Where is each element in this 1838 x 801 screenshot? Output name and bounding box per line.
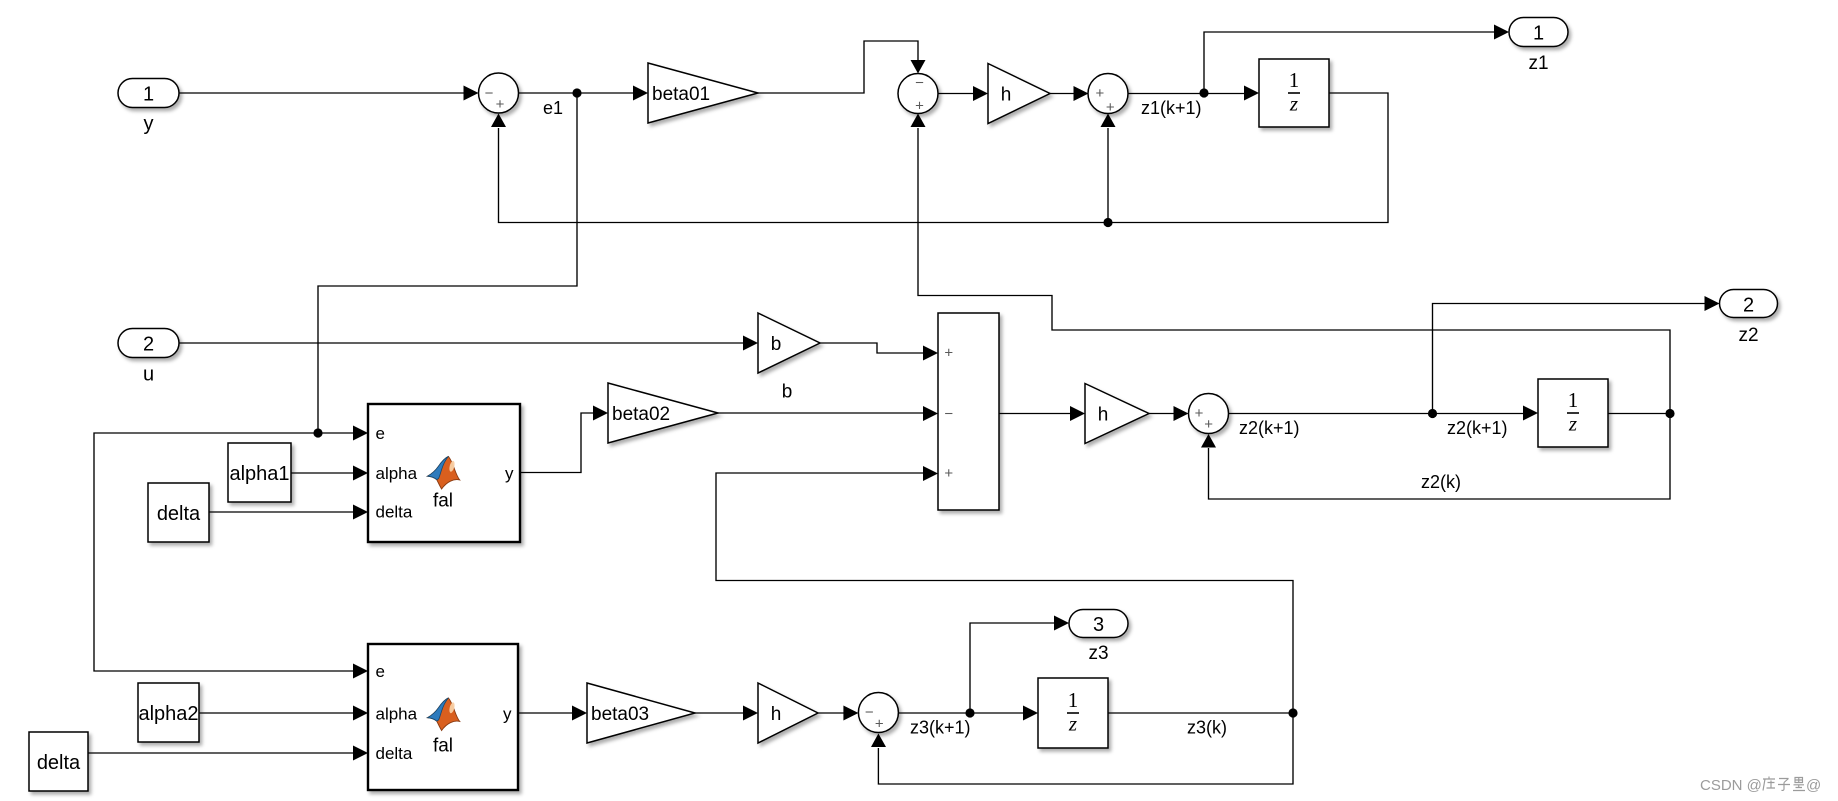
svg-text:delta: delta (37, 752, 81, 774)
svg-text:h: h (1001, 84, 1012, 105)
svg-text:z1: z1 (1528, 53, 1548, 74)
svg-text:z: z (1289, 91, 1298, 115)
svg-text:fal: fal (433, 736, 453, 757)
node z1(k) junction (1103, 218, 1112, 227)
svg-text:+: + (496, 96, 505, 113)
MATLAB function block fal1 (368, 404, 520, 542)
wire z2(k) feedback to Sum2 bottom (911, 114, 1671, 414)
wire z1(k) to Sum3 bottom (1101, 114, 1116, 223)
svg-text:z1(k+1): z1(k+1) (1141, 98, 1202, 118)
wire z3(k): UnitDelay3 output (1108, 712, 1293, 714)
wire h1 to Sum3 (1050, 86, 1089, 101)
sum S5 (z3 integrate) (858, 693, 898, 733)
svg-text:z: z (1568, 411, 1577, 435)
wire fal2 y to beta03 (518, 706, 587, 721)
wire z2(k+1): Sum4 to UnitDelay2 (1229, 406, 1539, 421)
constant block delta (148, 483, 209, 542)
svg-text:+: + (1195, 405, 1204, 422)
svg-text:+: + (1204, 416, 1213, 433)
svg-text:z2(k+1): z2(k+1) (1447, 418, 1508, 438)
constant block delta2 (29, 732, 88, 791)
svg-text:delta: delta (376, 744, 413, 763)
wire gain b to BigSum (820, 343, 938, 361)
unit delay U3 1/z (1038, 678, 1108, 748)
node z1(k+1) junction (1199, 88, 1208, 97)
svg-text:@: @ (1806, 777, 1821, 794)
svg-text:y: y (144, 113, 154, 135)
svg-text:+: + (944, 345, 953, 362)
inport 2 (u) (118, 329, 179, 386)
svg-text:u: u (143, 364, 154, 386)
svg-text:delta: delta (157, 503, 201, 525)
svg-text:+: + (944, 465, 953, 482)
svg-text:+: + (915, 97, 924, 114)
wire z3(k+1) to Outport3 (970, 616, 1069, 714)
node z2(k+1) junction (1428, 409, 1437, 418)
svg-text:z: z (1068, 711, 1077, 735)
node e1 junction (572, 88, 581, 97)
wire h2 to Sum4 (1149, 406, 1189, 421)
svg-text:1: 1 (1068, 688, 1079, 712)
unit delay U1 1/z (1259, 59, 1329, 127)
gain beta02 (608, 383, 718, 443)
svg-text:+: + (875, 716, 884, 733)
svg-text:3: 3 (1093, 614, 1104, 636)
wire z3(k) to Sum5 bottom (871, 713, 1293, 784)
wire alpha1 to fal1 (291, 466, 368, 481)
svg-text:z2(k): z2(k) (1421, 472, 1461, 492)
svg-text:1: 1 (1289, 68, 1300, 92)
svg-text:e1: e1 (543, 98, 563, 118)
svg-text:z2(k+1): z2(k+1) (1239, 418, 1300, 438)
svg-text:h: h (1098, 404, 1109, 425)
wire z1(k) feedback: UnitDelay1 to Sum1 bottom (491, 93, 1388, 223)
node z3(k+1) junction (965, 708, 974, 717)
sum S2 (beta01e1,z2) (898, 74, 938, 115)
svg-text:1: 1 (1568, 388, 1579, 412)
wire BigSum to h2 (999, 406, 1085, 421)
inport 1 (y) (118, 79, 179, 136)
wire z3(k) up to BigSum plus (716, 466, 1293, 713)
wire e into fal1 (318, 426, 368, 441)
wire e1 down to fal row (318, 93, 577, 433)
svg-text:h: h (771, 704, 782, 725)
wire h3 to Sum5 (818, 706, 858, 721)
svg-text:1: 1 (143, 83, 154, 105)
wire u to gain b (179, 336, 758, 351)
svg-text:+: + (1106, 99, 1115, 116)
node z3(k) junction (1288, 708, 1297, 717)
svg-text:y: y (505, 464, 514, 483)
constant block alpha2 (138, 683, 199, 742)
wire z3(k+1): Sum5 to UnitDelay3 (898, 706, 1038, 721)
unit delay U2 1/z (1538, 379, 1608, 447)
gain h2 (1085, 384, 1149, 444)
svg-text:b: b (771, 334, 782, 355)
svg-text:2: 2 (143, 333, 154, 355)
svg-text:z3(k): z3(k) (1187, 718, 1227, 738)
outport 1 (z1) (1509, 18, 1568, 75)
constant block alpha1 (228, 443, 291, 502)
gain beta01 (648, 63, 758, 123)
svg-text:z3(k+1): z3(k+1) (910, 718, 971, 738)
wire e to fal2 (94, 433, 368, 679)
wire beta01 to Sum2 top (758, 41, 926, 93)
svg-text:−: − (944, 405, 953, 422)
svg-text:CSDN @: CSDN @ (1700, 777, 1762, 794)
gain h3 (758, 683, 818, 743)
MATLAB function block fal2 (368, 644, 518, 790)
wire Sum2 to h1 (938, 86, 988, 101)
wire delta2 to fal2 (88, 746, 368, 761)
svg-text:e: e (376, 662, 385, 681)
sum S1 (y,z1) (479, 73, 519, 113)
wire beta03 to h3 (695, 706, 758, 721)
wire y to Sum1 (179, 86, 479, 101)
wire alpha2 to fal2 (199, 706, 368, 721)
wire z1(k+1) to Outport1 (1204, 25, 1509, 94)
svg-text:−: − (915, 75, 924, 92)
wire z1(k+1): Sum3 to UnitDelay1 (1129, 86, 1260, 101)
wire e1: Sum1 to beta01 (519, 86, 649, 101)
node e junction (313, 428, 322, 437)
svg-text:beta03: beta03 (591, 704, 649, 725)
svg-text:−: − (865, 704, 874, 721)
svg-text:beta01: beta01 (652, 84, 710, 105)
MATLAB logo in fal1 (428, 456, 460, 489)
wire z2(k) to Sum4 bottom (1201, 414, 1670, 500)
node z2(k) junction (1665, 409, 1674, 418)
svg-text:alpha: alpha (376, 464, 418, 483)
svg-text:z2: z2 (1738, 325, 1758, 346)
svg-text:delta: delta (376, 503, 413, 522)
outport 3 (z3) (1069, 610, 1128, 665)
svg-text:alpha: alpha (376, 705, 418, 724)
svg-text:alpha1: alpha1 (229, 463, 289, 485)
outport 2 (z2) (1720, 290, 1778, 347)
svg-text:b: b (782, 382, 793, 403)
svg-text:+: + (1096, 85, 1105, 102)
wire z2 to Outport2 (1433, 296, 1720, 414)
gain beta03 (587, 683, 695, 743)
svg-text:z3: z3 (1088, 643, 1108, 664)
svg-text:fal: fal (433, 491, 453, 512)
gain h1 (988, 64, 1050, 124)
svg-text:1: 1 (1533, 22, 1544, 44)
wire UnitDelay2 output (1608, 413, 1670, 415)
svg-text:y: y (503, 705, 512, 724)
svg-text:−: − (485, 85, 494, 102)
big sum block (+,-,+) (938, 313, 999, 510)
sum S4 (z2 integrate) (1189, 394, 1229, 434)
svg-text:alpha2: alpha2 (138, 703, 198, 725)
gain b (758, 313, 820, 403)
wire fal1 y to beta02 (520, 406, 608, 473)
wire delta to fal1 (209, 505, 368, 520)
svg-text:e: e (376, 424, 385, 443)
MATLAB logo in fal2 (428, 698, 460, 731)
sum S3 (z1 integrate) (1088, 74, 1128, 116)
svg-text:2: 2 (1743, 294, 1754, 316)
svg-text:beta02: beta02 (612, 404, 670, 425)
wire beta02 to BigSum minus (718, 406, 938, 421)
